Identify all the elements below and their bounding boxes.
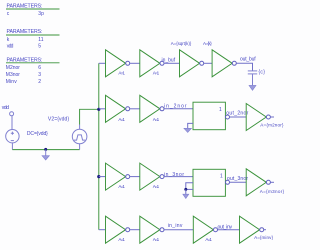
svg-text:PARAMETERS:: PARAMETERS:: [7, 3, 43, 9]
buffer E1 A=1 (row1 stage1): [106, 50, 126, 77]
wire row1 stage3-stage4: [204, 62, 212, 64]
buffer E5 A=1 (row2 stage1): [106, 95, 126, 122]
junction bus/V2/row2 node: [97, 108, 100, 111]
svg-text:1: 1: [219, 107, 222, 113]
wire row4 input stub: [99, 229, 106, 231]
svg-text:out_buf: out_buf: [240, 56, 256, 62]
parameter table 3 (PARAMETERS: M2nor=6, M3nor=3, Minv=2): [6, 57, 60, 85]
junction bus/row3 node: [97, 175, 100, 178]
svg-text:3p: 3p: [38, 11, 44, 17]
buffer E11 A=1 (row4 stage1): [106, 216, 126, 243]
NOR3 gate U2 (box): [193, 169, 225, 196]
svg-text:out_3nor: out_3nor: [227, 176, 248, 182]
svg-text:in_buf: in_buf: [162, 58, 176, 64]
svg-text:A=1: A=1: [153, 237, 160, 242]
wire row1 input stub: [99, 62, 106, 64]
svg-text:M3nor: M3nor: [6, 72, 20, 78]
wire net out_2nor: [230, 116, 247, 118]
svg-text:A=1: A=1: [153, 117, 160, 122]
svg-text:11: 11: [38, 37, 43, 43]
ground (NOR2 unused input): [184, 123, 193, 132]
buffer E10 A={m3nor} (row3 output): [246, 169, 266, 196]
buffer E2 A=1 (row1 stage2): [140, 50, 160, 77]
wire row2 stage1-stage2: [130, 108, 140, 110]
buffer E9 A=1 (row3 stage2): [140, 163, 160, 190]
svg-text:vdd: vdd: [7, 43, 14, 49]
svg-text:in_2nor: in_2nor: [164, 104, 187, 110]
wire row4 output stub: [264, 229, 266, 231]
svg-text:V2={vdd}: V2={vdd}: [48, 116, 69, 122]
NOR2 gate U1 (box): [193, 102, 225, 130]
junction source ground node: [44, 148, 47, 151]
svg-text:1: 1: [220, 174, 223, 180]
svg-text:M2nor: M2nor: [6, 65, 20, 71]
wire net out_inv: [218, 229, 240, 231]
svg-text:c: c: [7, 11, 10, 17]
wire row2 output stub: [270, 116, 274, 118]
buffer E8 A=1 (row3 stage1): [106, 163, 126, 190]
svg-text:A=1: A=1: [118, 117, 125, 122]
svg-text:6: 6: [38, 65, 41, 71]
svg-text:A={k}: A={k}: [203, 41, 212, 46]
svg-text:2: 2: [38, 79, 41, 85]
power symbol vdd: [2, 105, 14, 130]
voltage source V2 VPULSE V2={vdd}: [72, 129, 87, 144]
svg-text:A=1: A=1: [118, 184, 125, 189]
svg-text:A=1: A=1: [153, 71, 160, 76]
wire net in_3nor: [164, 176, 193, 178]
parameter table 2 (PARAMETERS: k=11, vdd=5): [6, 29, 60, 49]
svg-text:A={minv}: A={minv}: [254, 235, 273, 240]
wire capacitor bottom stem: [252, 74, 254, 86]
svg-text:A={sqrt(k)}: A={sqrt(k)}: [171, 41, 192, 46]
wire row4 stage1-stage2: [130, 229, 140, 231]
buffer E6 A=1 (row2 stage2): [140, 95, 160, 122]
svg-text:out_inv: out_inv: [218, 224, 233, 230]
wire V2 bottom stem: [79, 144, 81, 150]
svg-text:DC={vdd}: DC={vdd}: [27, 131, 48, 137]
buffer E4 A={k} (row1 stage4): [212, 50, 232, 77]
svg-text:in_inv: in_inv: [168, 223, 183, 229]
svg-text:k: k: [7, 37, 10, 43]
wire row2 input stub: [99, 108, 106, 110]
buffer E13 A=1 (row4 stage3): [193, 216, 213, 243]
svg-text:A=1: A=1: [205, 237, 212, 242]
buffer E12 A=1 (row4 stage2): [140, 216, 160, 243]
ground 0 (source rail): [42, 150, 49, 160]
wire net out_3nor: [230, 181, 247, 183]
wire net out_buf: [236, 63, 252, 70]
NOR3 output bubble: [226, 180, 230, 184]
wire V2 top to bus: [80, 109, 99, 124]
svg-text:out_2nor: out_2nor: [226, 110, 248, 116]
capacitor C1 {c}: [248, 71, 257, 74]
svg-text:A={m3nor}: A={m3nor}: [260, 189, 285, 194]
wire net in_inv: [164, 229, 193, 231]
svg-text:vdd: vdd: [2, 105, 9, 111]
svg-text:PARAMETERS:: PARAMETERS:: [7, 29, 43, 35]
wire V2 top pin: [79, 125, 81, 130]
wire V1 bottom stem: [11, 143, 13, 150]
svg-text:A=1: A=1: [118, 237, 125, 242]
svg-text:A=1: A=1: [118, 71, 125, 76]
wire source bottom rail: [12, 149, 79, 151]
parameter table 1 (PARAMETERS: c=3p): [6, 3, 60, 16]
buffer E3 A={sqrt(k)} (row1 stage3): [180, 50, 200, 77]
voltage source V1 VDC DC={vdd}: [6, 130, 19, 143]
wire row3 stage1-stage2: [130, 176, 140, 178]
wire row3 input stub: [99, 176, 106, 178]
svg-text:5: 5: [38, 43, 41, 49]
wire row3 output stub: [270, 181, 274, 183]
wire row1 stage1-stage2: [130, 62, 140, 64]
wire main vertical bus: [98, 63, 100, 229]
ground (NOR3 unused inputs): [183, 183, 193, 199]
svg-text:Minv: Minv: [6, 79, 17, 85]
svg-text:A={m2nor}: A={m2nor}: [260, 123, 284, 128]
buffer E14 A={minv} (row4 output): [240, 216, 260, 243]
wire net in_2nor: [164, 108, 193, 110]
wire net in_buf: [164, 62, 180, 64]
svg-text:3: 3: [38, 72, 41, 78]
svg-text:A=1: A=1: [153, 184, 160, 189]
ground 0 (capacitor): [249, 85, 256, 90]
svg-text:{c}: {c}: [258, 69, 265, 75]
buffer E7 A={m2nor} (row2 output): [246, 104, 266, 131]
svg-text:in_3nor: in_3nor: [164, 172, 184, 178]
NOR2 output bubble: [226, 115, 230, 119]
